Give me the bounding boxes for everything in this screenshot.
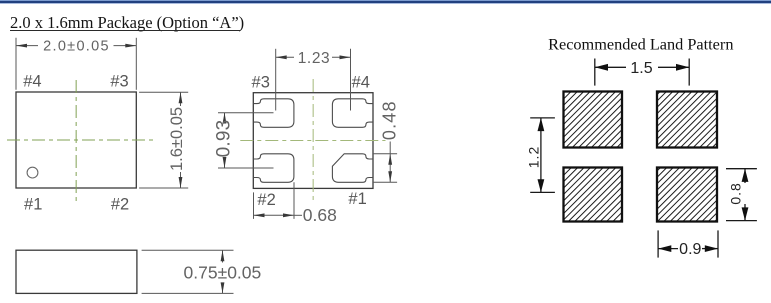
- svg-text:0.48: 0.48: [379, 100, 399, 140]
- land pad bottom-left (hatched): [564, 168, 623, 222]
- pad #1 (bottom-right, chamfered pin-1): [332, 154, 373, 183]
- dimension 2.0±0.05: arrowheads: [16, 44, 27, 48]
- dimension 1.23: extension/leader lines into top pads: [275, 49, 277, 111]
- svg-text:0.93: 0.93: [213, 120, 234, 158]
- dimension 0.8: extension lines: [726, 168, 757, 170]
- pad #4 (top-right): [332, 99, 373, 128]
- dimension 0.48: arrowheads: [388, 154, 392, 165]
- dimension 0.9: dimension line: [658, 248, 678, 250]
- top blue separator bar: [0, 0, 771, 4]
- svg-text:#1: #1: [348, 190, 366, 208]
- dimension 1.2: arrowheads: [538, 118, 545, 131]
- centerline horizontal (top view): [7, 139, 153, 141]
- title: 2.0 x 1.6mm Package (Option "A"): [10, 16, 244, 29]
- dimension 1.6±0.05: dimension line: [180, 92, 182, 106]
- centerline vertical (top view): [75, 80, 77, 203]
- centerline vertical (bottom view): [312, 79, 314, 201]
- svg-text:#2: #2: [257, 191, 275, 209]
- dimension 1.2: extension lines: [530, 117, 555, 119]
- land pad top-right (hatched): [657, 92, 717, 148]
- svg-text:#2: #2: [111, 196, 129, 214]
- dimension 2.0±0.05: dimension line: [16, 45, 38, 47]
- package bottom view outline: [253, 93, 373, 189]
- dimension 0.75±0.05: dimension line: [222, 250, 224, 262]
- package side view outline: [16, 250, 137, 293]
- package top view outline: [16, 92, 136, 188]
- dimension 0.8: arrowheads: [742, 169, 749, 182]
- land pad bottom-right (hatched): [657, 168, 717, 222]
- dimension 0.68: extension lines: [253, 192, 255, 219]
- pin1 index circle: [27, 167, 38, 178]
- svg-text:1.2: 1.2: [526, 146, 542, 168]
- svg-text:Recommended Land Pattern: Recommended Land Pattern: [548, 35, 733, 54]
- dimension 0.93: leader lines into left pads: [218, 112, 274, 114]
- svg-text:#3: #3: [252, 74, 270, 92]
- dimension 1.5: extension lines: [594, 59, 596, 86]
- svg-text:#3: #3: [110, 72, 128, 90]
- dimension 1.2: dimension line: [540, 118, 542, 192]
- dimension 0.68: arrowheads: [254, 213, 265, 217]
- svg-text:0.75±0.05: 0.75±0.05: [184, 262, 262, 282]
- land pad top-left (hatched): [564, 92, 623, 148]
- pad #3 (top-left): [253, 99, 294, 128]
- dimension 2.0±0.05: extension lines: [15, 38, 17, 90]
- dimension 0.93: arrowheads: [223, 113, 227, 124]
- svg-text:1.5: 1.5: [630, 60, 652, 77]
- dimension 1.5: arrowheads: [595, 64, 608, 71]
- svg-text:#4: #4: [352, 74, 370, 92]
- centerline horizontal (bottom view): [240, 140, 385, 142]
- dimension 1.6±0.05: extension lines: [139, 91, 188, 93]
- dimension 0.9: arrowheads: [658, 245, 671, 252]
- svg-text:0.68: 0.68: [303, 205, 337, 225]
- svg-text:1.6±0.05: 1.6±0.05: [168, 107, 186, 171]
- svg-text:1.23: 1.23: [298, 50, 331, 67]
- svg-text:0.8: 0.8: [728, 182, 744, 204]
- dimension 0.75±0.05: arrowheads: [221, 250, 225, 261]
- svg-text:#1: #1: [24, 196, 42, 214]
- dimension 0.48: dimension line: [389, 142, 391, 154]
- svg-text:#4: #4: [23, 72, 41, 90]
- dimension 1.23: arrowheads: [276, 55, 287, 59]
- svg-text:0.9: 0.9: [679, 241, 701, 258]
- dimension 0.75±0.05: extension lines: [142, 249, 234, 251]
- dimension 0.8: dimension line: [744, 169, 746, 183]
- dimension 0.48: extension lines: [373, 153, 397, 155]
- dimension 1.6±0.05: arrowheads: [179, 92, 183, 103]
- dimension 1.23: dimension line: [276, 56, 294, 58]
- dimension 0.93: dimension line: [224, 113, 226, 122]
- dimension 1.5: dimension line: [595, 66, 626, 68]
- dimension 0.9: extension lines: [657, 230, 659, 257]
- svg-text:2.0±0.05: 2.0±0.05: [43, 39, 110, 55]
- pad #2 (bottom-left): [253, 154, 294, 183]
- dimension 0.68: dimension line: [254, 214, 295, 216]
